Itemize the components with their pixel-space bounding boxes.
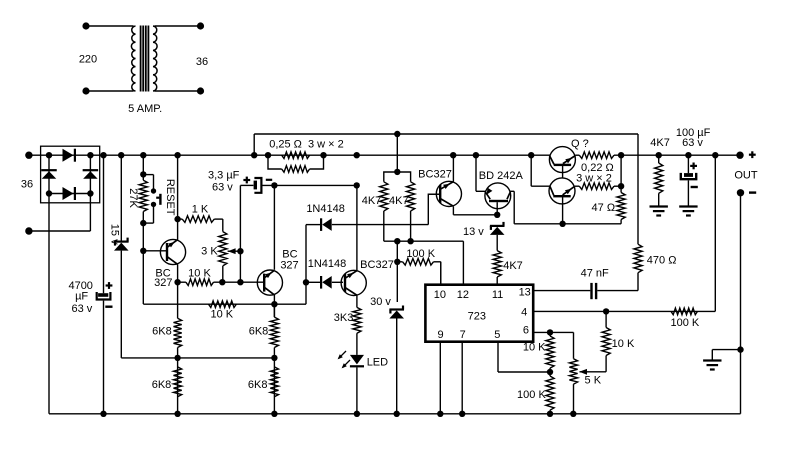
- svg-text:220: 220: [79, 54, 97, 66]
- svg-text:4K7: 4K7: [389, 195, 409, 207]
- svg-text:0,25 Ω 3 w × 2: 0,25 Ω 3 w × 2: [269, 139, 344, 151]
- svg-text:327: 327: [280, 259, 298, 271]
- svg-text:6: 6: [523, 325, 529, 337]
- svg-text:5 K: 5 K: [585, 375, 602, 387]
- svg-text:13 v: 13 v: [463, 226, 484, 238]
- svg-text:723: 723: [468, 311, 486, 323]
- svg-text:RESET: RESET: [164, 179, 176, 216]
- svg-text:BD 242A: BD 242A: [479, 170, 524, 182]
- svg-text:63 v: 63 v: [682, 137, 703, 149]
- svg-text:63 v: 63 v: [72, 303, 93, 315]
- svg-text:27K: 27K: [127, 188, 139, 208]
- svg-text:12: 12: [457, 289, 469, 301]
- svg-text:100 K: 100 K: [517, 389, 546, 401]
- svg-text:63 v: 63 v: [212, 182, 233, 194]
- svg-text:3K3: 3K3: [334, 312, 354, 324]
- svg-text:9: 9: [438, 329, 444, 341]
- svg-text:47 nF: 47 nF: [581, 267, 609, 279]
- svg-text:10: 10: [434, 289, 446, 301]
- svg-text:36: 36: [196, 56, 208, 68]
- svg-text:10 K: 10 K: [188, 268, 211, 280]
- svg-text:15 v: 15 v: [108, 224, 120, 245]
- svg-text:11: 11: [492, 289, 503, 301]
- svg-text:327: 327: [154, 277, 172, 289]
- svg-text:6K8: 6K8: [249, 325, 269, 337]
- svg-text:BC327: BC327: [360, 259, 394, 271]
- svg-text:10 K: 10 K: [210, 309, 233, 321]
- svg-text:3 w × 2: 3 w × 2: [576, 172, 612, 184]
- svg-text:LED: LED: [367, 356, 388, 368]
- svg-text:100 K: 100 K: [671, 317, 700, 329]
- svg-text:5 AMP.: 5 AMP.: [128, 103, 162, 115]
- svg-text:5: 5: [494, 329, 500, 341]
- svg-text:30 v: 30 v: [370, 296, 391, 308]
- svg-text:100 K: 100 K: [406, 248, 435, 260]
- svg-text:3 K: 3 K: [201, 245, 218, 257]
- svg-text:10 K: 10 K: [612, 338, 635, 350]
- svg-text:470 Ω: 470 Ω: [647, 255, 677, 267]
- svg-text:4K7: 4K7: [503, 260, 523, 272]
- svg-text:13: 13: [519, 287, 531, 299]
- svg-text:47 Ω: 47 Ω: [592, 202, 616, 214]
- svg-text:10 K: 10 K: [523, 341, 546, 353]
- svg-text:36: 36: [21, 179, 33, 191]
- svg-text:4K7: 4K7: [650, 137, 670, 149]
- svg-text:OUT: OUT: [734, 169, 758, 181]
- svg-text:3,3 µF: 3,3 µF: [208, 169, 240, 181]
- svg-text:6K8: 6K8: [152, 379, 172, 391]
- svg-text:1N4148: 1N4148: [306, 203, 345, 215]
- svg-text:4K7: 4K7: [362, 195, 382, 207]
- svg-text:1 K: 1 K: [192, 203, 209, 215]
- svg-text:BC327: BC327: [418, 169, 452, 181]
- svg-text:4: 4: [521, 307, 527, 319]
- svg-text:Q ?: Q ?: [571, 138, 589, 150]
- svg-text:µF: µF: [75, 291, 88, 303]
- svg-text:7: 7: [460, 329, 466, 341]
- svg-text:6K8: 6K8: [248, 379, 268, 391]
- svg-text:1N4148: 1N4148: [308, 258, 347, 270]
- svg-text:6K8: 6K8: [152, 325, 172, 337]
